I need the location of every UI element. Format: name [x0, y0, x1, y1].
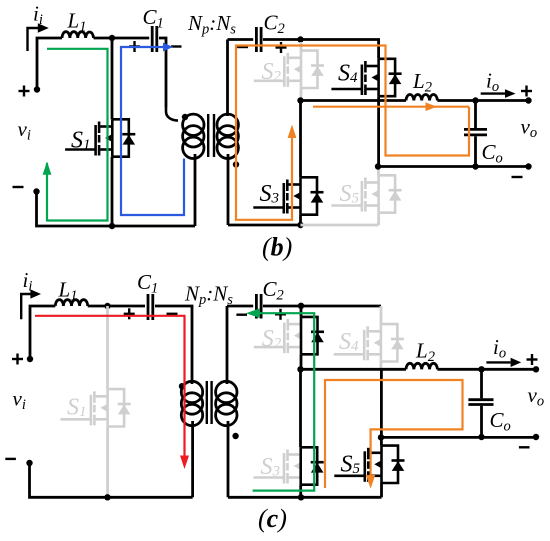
- capacitor C2 (c): [255, 294, 258, 319]
- svg-text:S2: S2: [262, 59, 282, 85]
- switch S2 (c): gray FET, conducting body diode: [254, 319, 301, 353]
- wire: green loop: [47, 49, 108, 221]
- svg-text:S3: S3: [261, 454, 281, 480]
- svg-text:S3: S3: [260, 181, 280, 207]
- svg-text:ii: ii: [23, 268, 33, 295]
- C2 polarity - (c): [236, 314, 247, 316]
- node: S1 source / bottom rail junction (c): [104, 494, 110, 500]
- node: S3 source junction (c): [298, 494, 304, 500]
- green arrowhead (left, c): [246, 308, 260, 318]
- capacitor Co (c): [480, 369, 483, 398]
- current arrow i_i (input): [28, 23, 49, 51]
- wire: secondary bottom rail (c): [228, 496, 382, 499]
- svg-text:S4: S4: [338, 61, 358, 87]
- node: L1/C1/S1 junction (c): [104, 303, 110, 309]
- node: S5 drain / output rail: [375, 163, 381, 169]
- node: output top junction (c): [478, 366, 484, 372]
- node: input + terminal: [34, 86, 40, 92]
- transformer secondary winding Ns: [217, 114, 238, 158]
- node: S5 drain / output rail (c): [378, 434, 384, 440]
- wire: gray rail to S5: [301, 224, 379, 227]
- svg-text:C2: C2: [263, 277, 284, 304]
- node: output + terminal (c): [533, 366, 539, 372]
- svg-text:(c): (c): [258, 504, 287, 533]
- node: top rail / S2 drain: [297, 36, 303, 42]
- capacitor Co: [474, 101, 477, 129]
- node: S3 source junction: [297, 222, 303, 228]
- orange current path (b): [236, 46, 469, 220]
- current arrow i_o: [481, 89, 516, 98]
- input - sign: [13, 186, 24, 188]
- node: mid rail junction (c): [297, 366, 303, 372]
- inductor L2 (c): [406, 363, 437, 369]
- wire: input + terminal to L1 (c): [30, 306, 55, 359]
- transformer primary winding Np (c): [181, 381, 202, 425]
- wire: C2 to S4 drain corner (top rail): [263, 40, 379, 59]
- mid rail (c): [301, 368, 407, 371]
- svg-text:C2: C2: [264, 11, 285, 38]
- switch S3: [253, 101, 323, 226]
- C1 polarity + (c): [124, 308, 135, 319]
- svg-text:L1: L1: [58, 278, 78, 305]
- orange current path (c): [325, 380, 463, 489]
- svg-text:vo: vo: [521, 115, 538, 142]
- svg-text:vo: vo: [528, 383, 545, 410]
- svg-text:vi: vi: [18, 117, 31, 144]
- svg-text:C1: C1: [137, 270, 158, 297]
- svg-text:vi: vi: [13, 387, 26, 414]
- output bottom rail (c): [381, 436, 536, 439]
- green arrowhead (up): [43, 162, 52, 175]
- transformer core: [208, 114, 214, 157]
- svg-text:ii: ii: [33, 2, 43, 29]
- red current path (c): [35, 316, 189, 469]
- switch S2 (inactive): [254, 42, 324, 101]
- wire: secondary top to C2: [228, 38, 254, 41]
- wire: primary bottom to rail: [194, 154, 197, 226]
- wire: input - terminal to bottom rail: [37, 192, 196, 227]
- switch S3 (c): gray FET, conducting body diode: [254, 450, 301, 484]
- transformer secondary winding Ns (c): [216, 381, 237, 425]
- C1 polarity -: [171, 45, 182, 47]
- green current path (b): [43, 49, 108, 221]
- primary phase dot: [182, 114, 188, 120]
- output + sign: [521, 86, 532, 97]
- wire: L2 to output + terminal (c): [437, 368, 536, 371]
- svg-text:S5: S5: [340, 181, 360, 207]
- svg-text:S4: S4: [339, 329, 359, 355]
- wire: L2 to output + terminal: [437, 99, 528, 102]
- output bottom rail: [378, 165, 529, 168]
- svg-text:(b): (b): [262, 233, 292, 262]
- switch S5 (c): [334, 437, 404, 497]
- wire: input + terminal to L1: [37, 38, 62, 90]
- inductor L1 (c): [55, 300, 87, 306]
- wire: input - terminal to bottom rail (c): [30, 463, 193, 497]
- wire: L1 to C1 (c): [88, 305, 145, 308]
- wire: orange L2 branch: [313, 106, 469, 108]
- wire: secondary top to C2 (c): [227, 305, 253, 308]
- svg-text:L2: L2: [412, 69, 432, 96]
- transformer primary winding Np: [183, 114, 204, 158]
- svg-text:Np:Ns: Np:Ns: [187, 11, 236, 38]
- transformer core (c): [207, 381, 212, 424]
- svg-text:L2: L2: [415, 339, 435, 366]
- wire: L1 to C1: [94, 37, 150, 40]
- svg-text:C1: C1: [143, 5, 164, 32]
- switch S1: [65, 38, 135, 226]
- wire: S4 leg down to output rail (c): [380, 369, 383, 437]
- C2 polarity -: [237, 46, 248, 48]
- svg-text:io: io: [493, 335, 506, 362]
- orange arrowhead (down, c): [366, 475, 375, 489]
- input - sign (c): [5, 458, 16, 460]
- node: output - terminal (c): [533, 434, 539, 440]
- inductor L2: [406, 95, 437, 101]
- node: input - terminal (c): [26, 460, 32, 466]
- node: output top junction: [472, 97, 478, 103]
- node: Co bottom junction: [472, 163, 478, 169]
- secondary phase dot (c): [232, 433, 238, 439]
- wire: C1 to transformer primary top (c): [155, 306, 192, 384]
- red arrowhead (down): [180, 456, 189, 470]
- svg-text:S1: S1: [71, 128, 91, 154]
- capacitor C1 (c): [147, 294, 150, 320]
- node A (L1/C1/S1 junction): [109, 35, 115, 41]
- svg-text:S2: S2: [262, 326, 282, 352]
- svg-text:L1: L1: [67, 9, 87, 36]
- wire: orange loop left/top: [236, 46, 469, 220]
- node: Co bottom junction (c): [478, 434, 484, 440]
- wire: secondary bottom to rail: [227, 154, 230, 225]
- wire: green path: [253, 313, 315, 490]
- node: mid rail junction: [297, 97, 303, 103]
- orange arrowhead (right): [426, 102, 438, 111]
- wire: C1 to transformer primary top: [159, 38, 166, 107]
- wire: orange path: [325, 380, 463, 488]
- capacitor C2: [255, 27, 258, 52]
- node: output - terminal: [525, 163, 531, 169]
- node: input + terminal (c): [27, 356, 33, 362]
- svg-text:S5: S5: [341, 452, 361, 478]
- node: output + terminal: [525, 97, 531, 103]
- C1 polarity +: [129, 41, 140, 52]
- mid rail: S3/S2 junction to L2: [301, 99, 407, 102]
- svg-text:Co: Co: [482, 140, 503, 167]
- current arrow i_o (c): [486, 358, 521, 367]
- node: top rail / S2 drain (c): [298, 303, 304, 309]
- capacitor C1: [151, 26, 154, 52]
- C1 polarity - (c): [167, 313, 178, 315]
- switch S4: [331, 59, 401, 167]
- inductor L1: [62, 32, 94, 38]
- node: input - terminal: [33, 188, 39, 194]
- current arrow i_i (input, c): [21, 289, 41, 319]
- blue current path (b): [121, 43, 184, 215]
- svg-text:io: io: [486, 69, 499, 96]
- blue arrowhead (right): [163, 43, 173, 52]
- wire: primary bottom to rail (c): [191, 421, 194, 497]
- primary phase dot (c): [179, 383, 185, 389]
- secondary phase dot: [233, 161, 239, 167]
- orange arrowhead (up): [288, 125, 297, 139]
- wire: C2 to S4 drain (top rail, c): [263, 305, 381, 308]
- green current path (c): [246, 308, 314, 490]
- wire: red path: [35, 316, 185, 456]
- svg-text:Co: Co: [490, 408, 511, 435]
- wire: blue loop: [121, 47, 184, 215]
- switch S4 (inactive, c): [334, 306, 404, 369]
- C2 polarity + (c): [275, 309, 286, 320]
- wire: secondary bottom rail (black part): [228, 224, 301, 227]
- output + sign (c): [527, 354, 538, 365]
- svg-text:Np:Ns: Np:Ns: [184, 282, 233, 309]
- output - sign: [512, 176, 523, 178]
- output - sign (c): [519, 446, 530, 448]
- switch S1 (inactive, c): [60, 306, 130, 497]
- input + sign: [19, 86, 30, 97]
- C2 polarity +: [276, 42, 287, 53]
- node: S1 source / bottom rail junction: [109, 223, 115, 229]
- svg-text:S1: S1: [67, 395, 87, 421]
- wire: secondary bottom to rail (c): [227, 421, 230, 497]
- input + sign (c): [12, 354, 23, 365]
- switch S5 (inactive): [331, 168, 401, 225]
